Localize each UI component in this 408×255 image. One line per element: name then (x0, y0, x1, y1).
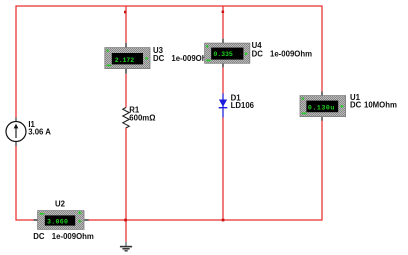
wire branch1 upper (top to U3) (125, 6, 127, 43)
svg-text:DC1e-009Ohm: DC1e-009Ohm (33, 232, 94, 241)
junction dot bottom branch1 (124, 219, 127, 222)
multimeter U3 (105, 43, 150, 74)
svg-text:600mΩ: 600mΩ (129, 113, 155, 122)
junction dot bottom branch2 (222, 219, 225, 222)
junction dot top branch2 (222, 11, 225, 14)
wire branch1 lower (R1 to bottom) (125, 128, 127, 221)
multimeter U2 (34, 211, 89, 230)
svg-text:U2: U2 (55, 199, 66, 208)
svg-text:2.172: 2.172 (115, 57, 134, 64)
svg-text:LD106: LD106 (231, 101, 255, 110)
wire branch2 upper (top to U4) (222, 6, 224, 39)
wire left vertical upper (to I1) (15, 6, 17, 118)
svg-text:3.06 A: 3.06 A (28, 127, 51, 136)
svg-text:DC1e-009Ohm: DC1e-009Ohm (252, 49, 313, 58)
wire left vertical lower (I1 to bottom) (15, 146, 17, 221)
svg-text:DC10MOhm: DC10MOhm (350, 101, 397, 110)
wire right vertical lower (U1 to bottom) (321, 121, 323, 221)
wire top horizontal net (16, 5, 323, 7)
current source I1 (6, 118, 26, 147)
wire bottom horizontal net (16, 219, 323, 221)
wire ground drop (125, 220, 127, 242)
junction dot top branch1 (124, 11, 127, 14)
resistor R1 (123, 108, 129, 128)
wire branch2 middle (U4 to D1, red part) (222, 67, 224, 93)
svg-text:0.130u: 0.130u (308, 104, 335, 111)
multimeter U4 (205, 39, 250, 68)
diode D1 (219, 100, 228, 108)
wire branch1 middle (U3 to R1) (125, 74, 127, 108)
wire branch2 lower (D1 to bottom) (222, 118, 224, 221)
wire right vertical upper (to U1) (321, 6, 323, 92)
ground (120, 242, 132, 251)
svg-text:0.335: 0.335 (213, 51, 232, 58)
multimeter U1 (300, 92, 346, 121)
wire branch2 D1 pins blue (222, 94, 224, 118)
svg-text:3.060: 3.060 (47, 218, 68, 225)
